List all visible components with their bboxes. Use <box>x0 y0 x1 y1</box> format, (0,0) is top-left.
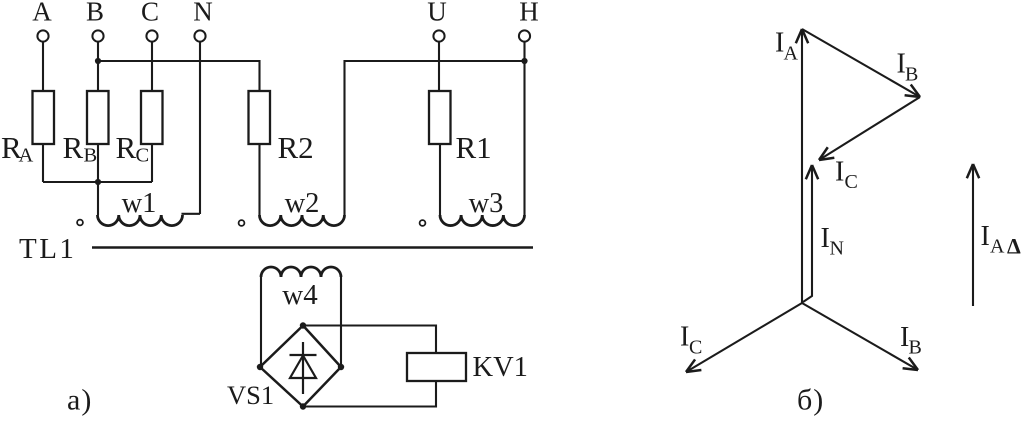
winding w4 <box>261 267 341 277</box>
wire C lead <box>151 42 153 91</box>
wire A lead <box>42 42 44 91</box>
junction bridge top <box>300 322 306 328</box>
wire RB bottom to w1 <box>97 144 99 215</box>
wire bridge top to KV1 <box>303 326 436 354</box>
terminal B <box>92 30 103 41</box>
wire star bus <box>43 181 152 183</box>
svg-text:C: C <box>141 0 159 27</box>
diode triangle <box>290 356 316 379</box>
vector IA delta <box>972 165 974 306</box>
resistor R2 <box>249 91 271 144</box>
vector IB <box>802 303 918 370</box>
wire R1 bottom to w3 <box>439 144 441 215</box>
terminal C <box>146 30 157 41</box>
svg-text:B: B <box>86 0 104 27</box>
svg-text:w2: w2 <box>285 188 320 219</box>
svg-text:а): а) <box>67 384 92 417</box>
arrowhead IC bottom <box>686 359 695 372</box>
resistor RB <box>87 91 109 144</box>
arrowhead IB top <box>905 95 920 97</box>
wire w4 right lead <box>340 277 342 367</box>
svg-text:w3: w3 <box>469 188 504 219</box>
svg-text:w1: w1 <box>122 188 157 219</box>
svg-text:TL1: TL1 <box>19 233 76 265</box>
wire H lead <box>523 42 525 215</box>
wire B bus to R2 <box>98 61 260 91</box>
svg-text:H: H <box>519 0 539 27</box>
vector IA <box>801 30 803 303</box>
wire RC bottom <box>151 144 153 182</box>
svg-text:N: N <box>193 0 213 27</box>
winding w3 <box>440 215 525 226</box>
svg-text:R1: R1 <box>456 130 492 165</box>
svg-text:U: U <box>427 0 447 27</box>
resistor RA <box>33 91 55 144</box>
vector IB tie line <box>802 29 920 97</box>
wire w1 to N <box>183 214 201 215</box>
relay coil KV1 <box>407 353 466 381</box>
arrowhead IN <box>812 165 818 179</box>
terminal A <box>37 30 48 41</box>
svg-text:VS1: VS1 <box>227 380 274 410</box>
junction B <box>95 58 101 64</box>
arrowhead IC top <box>819 147 828 160</box>
terminal U <box>433 30 444 41</box>
terminal N <box>194 30 205 41</box>
junction bridge left <box>257 364 263 370</box>
wire RA bottom <box>42 144 44 182</box>
vector IN <box>803 166 812 302</box>
diode wire <box>302 342 304 394</box>
transformer core TL1 <box>92 246 533 249</box>
svg-text:б): б) <box>797 384 824 417</box>
junction bridge bottom <box>300 403 306 409</box>
resistor R1 <box>429 91 451 144</box>
wire B lead <box>97 42 99 91</box>
polarity dot w3 <box>420 220 426 226</box>
resistor RC <box>141 91 163 144</box>
wire w4 left lead <box>260 277 262 367</box>
wire w2 to H bus <box>345 61 525 215</box>
polarity dot w1 <box>77 220 83 226</box>
wire U lead <box>438 42 440 91</box>
svg-text:KV1: KV1 <box>473 352 528 383</box>
vector IC tie line <box>819 97 920 160</box>
junction star <box>95 179 101 185</box>
wire N lead <box>199 42 201 214</box>
junction bridge right <box>338 364 344 370</box>
winding w1 <box>98 215 183 226</box>
svg-text:A: A <box>32 0 52 27</box>
junction H <box>521 58 527 64</box>
arrowhead IA delta <box>973 164 979 178</box>
polarity dot w2 <box>239 220 245 226</box>
arrowhead IA <box>802 29 808 43</box>
terminal H <box>519 30 530 41</box>
svg-text:R2: R2 <box>278 130 314 165</box>
wire R2 bottom to w2 <box>258 144 260 215</box>
diode cathode bar <box>290 354 317 356</box>
wire KV1 to bridge bottom <box>303 381 436 407</box>
bridge VS1 diamond <box>260 326 341 407</box>
vector IC <box>686 303 802 372</box>
svg-text:w4: w4 <box>282 279 318 311</box>
arrowhead IB bottom <box>903 368 918 370</box>
winding w2 <box>260 215 345 226</box>
